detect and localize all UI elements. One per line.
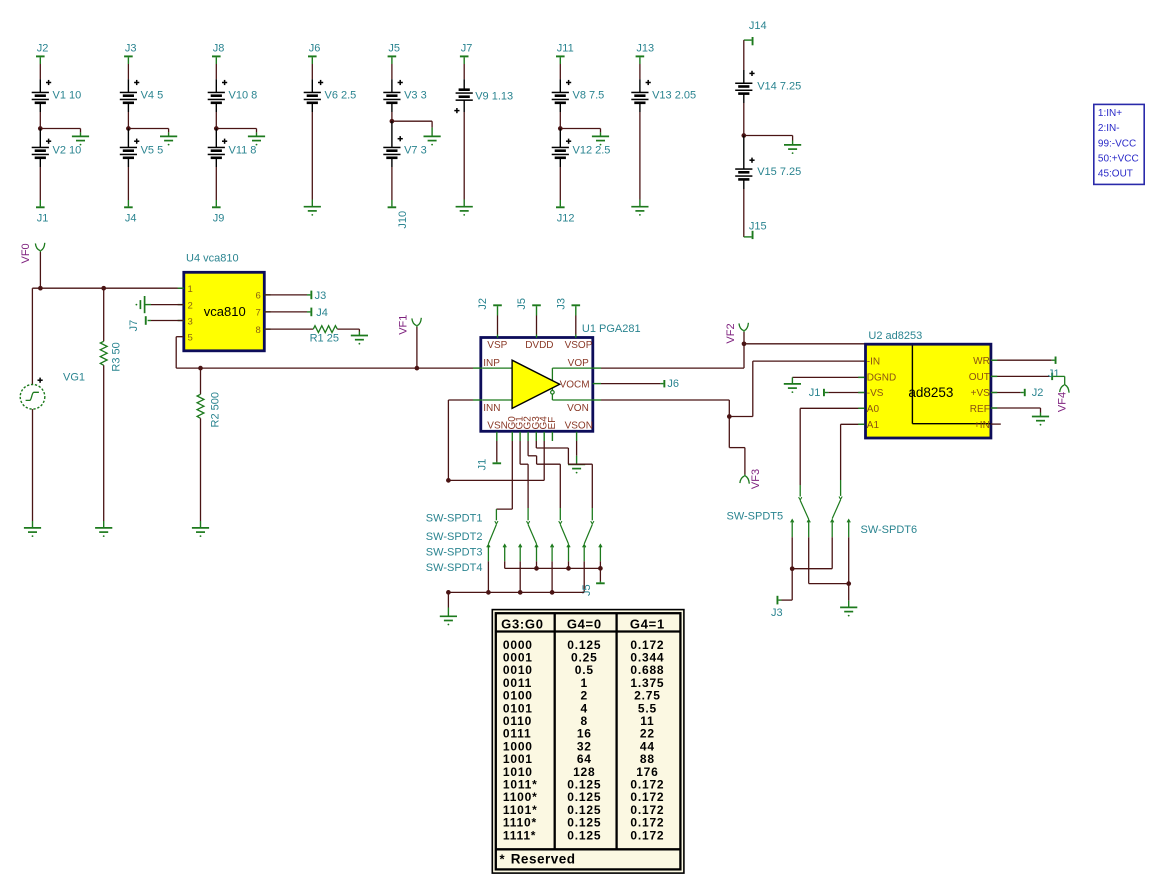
svg-text:V11 8: V11 8	[229, 145, 257, 157]
svg-text:VOCM: VOCM	[560, 380, 590, 391]
svg-text:2: 2	[188, 300, 193, 311]
svg-text:V9 1.13: V9 1.13	[475, 90, 513, 102]
wire	[463, 112, 465, 200]
junction	[846, 581, 851, 586]
junction	[742, 341, 747, 346]
terminal J2	[1021, 387, 1044, 399]
terminal J3	[124, 43, 136, 65]
wire	[991, 408, 1041, 413]
switch SW-SPDT1	[487, 509, 507, 561]
terminal J11	[556, 43, 574, 65]
ground	[72, 132, 89, 145]
wire	[39, 112, 41, 129]
junction	[415, 366, 420, 371]
wire	[536, 441, 592, 508]
junction	[126, 126, 131, 131]
terminal J9	[212, 200, 224, 224]
junction	[566, 566, 571, 571]
wire	[151, 320, 184, 322]
terminal J1	[477, 459, 501, 471]
ground	[784, 141, 801, 155]
ground	[631, 200, 648, 216]
wire	[215, 167, 217, 200]
wire	[559, 64, 561, 79]
probe VF4	[1056, 384, 1069, 413]
switch SW-SPDT2	[519, 508, 539, 561]
terminal J1	[36, 200, 48, 224]
svg-text:SW-SPDT5: SW-SPDT5	[727, 510, 784, 522]
wire	[311, 64, 313, 79]
junction	[558, 126, 563, 131]
wire	[128, 129, 168, 133]
junction	[446, 590, 451, 595]
wire	[991, 392, 1021, 394]
svg-text:J2: J2	[37, 43, 49, 55]
wire	[743, 40, 745, 70]
wire	[497, 316, 499, 338]
amplifier U1 PGA281	[481, 323, 641, 432]
wire	[40, 129, 80, 133]
junction	[101, 286, 106, 291]
wire	[127, 167, 129, 200]
switch SW-SPDT4	[583, 508, 602, 561]
wire	[639, 112, 641, 200]
terminal J6	[308, 43, 320, 65]
voltage source V8 7.5	[552, 79, 605, 112]
wire	[265, 328, 314, 330]
wire	[496, 441, 498, 462]
voltage source V4 5	[120, 79, 163, 112]
svg-text:J2: J2	[1032, 387, 1044, 399]
wire	[841, 424, 865, 480]
wire	[991, 375, 1050, 377]
wire	[178, 288, 271, 329]
wire	[391, 64, 393, 79]
svg-text:V12 2.5: V12 2.5	[573, 145, 611, 157]
svg-text:G4=0: G4=0	[567, 616, 602, 631]
svg-text:+IN: +IN	[974, 420, 990, 431]
svg-text:0.125: 0.125	[567, 828, 601, 842]
wire	[744, 343, 865, 345]
wire	[568, 561, 570, 568]
ground	[840, 601, 857, 617]
svg-text:V8 7.5: V8 7.5	[573, 90, 605, 102]
svg-text:J3: J3	[771, 607, 783, 619]
label SW-SPDT4	[426, 562, 483, 574]
svg-text:J1: J1	[37, 212, 49, 224]
junction	[38, 286, 43, 291]
ground	[160, 132, 177, 145]
svg-text:8: 8	[256, 325, 261, 336]
svg-text:1:IN+: 1:IN+	[1098, 108, 1122, 119]
svg-text:VSN: VSN	[487, 421, 508, 432]
wire	[599, 568, 601, 581]
wire	[216, 129, 256, 133]
wire	[543, 432, 545, 441]
svg-text:45:OUT: 45:OUT	[1098, 169, 1133, 180]
svg-text:J9: J9	[213, 212, 225, 224]
terminal J12	[556, 200, 575, 224]
svg-text:A1: A1	[867, 420, 880, 431]
wire	[511, 432, 513, 441]
svg-text:99:-VCC: 99:-VCC	[1098, 138, 1136, 149]
wire	[593, 383, 661, 385]
probe VF3	[740, 469, 762, 489]
junction	[550, 590, 555, 595]
svg-text:U4 vca810: U4 vca810	[186, 253, 239, 265]
wire	[32, 288, 183, 384]
terminal J6	[660, 378, 679, 390]
svg-text:R1 25: R1 25	[310, 333, 339, 345]
terminal J2	[477, 298, 502, 316]
svg-text:J4: J4	[125, 212, 137, 224]
wire	[743, 332, 745, 344]
svg-text:VF2: VF2	[725, 323, 737, 343]
junction	[38, 126, 43, 131]
wire	[39, 252, 41, 288]
wire	[848, 584, 850, 601]
terminal J1	[809, 387, 829, 399]
ground	[24, 521, 41, 537]
svg-text:V14 7.25: V14 7.25	[757, 80, 801, 92]
svg-text:VSOP: VSOP	[565, 340, 593, 351]
voltage source V13 2.05	[631, 79, 696, 112]
svg-text:-IN: -IN	[867, 356, 880, 367]
wire bus	[505, 567, 601, 569]
svg-text:V13 2.05: V13 2.05	[652, 90, 696, 102]
svg-text:SW-SPDT1: SW-SPDT1	[426, 513, 483, 525]
svg-text:J12: J12	[557, 212, 575, 224]
wire	[792, 376, 864, 378]
wire	[809, 537, 849, 583]
generator VG1	[20, 372, 85, 410]
junction	[518, 590, 523, 595]
wire	[729, 417, 745, 475]
wire	[782, 569, 793, 600]
wire	[103, 288, 105, 341]
voltage source V10 8	[208, 79, 258, 112]
wire	[599, 561, 601, 568]
label SW-SPDT5	[727, 510, 784, 522]
wire	[576, 441, 578, 456]
terminal J3	[771, 596, 783, 619]
svg-text:VF4: VF4	[1056, 392, 1068, 412]
svg-text:VF3: VF3	[750, 469, 762, 489]
wire	[551, 432, 553, 441]
terminal J2	[36, 43, 48, 65]
terminal J5	[516, 298, 541, 316]
wire	[151, 304, 184, 306]
svg-text:WR: WR	[973, 356, 990, 367]
svg-text:SW-SPDT4: SW-SPDT4	[426, 562, 483, 574]
svg-text:3: 3	[188, 316, 193, 327]
svg-text:V4 5: V4 5	[141, 90, 164, 102]
wire	[448, 399, 482, 401]
svg-text:VSP: VSP	[487, 340, 507, 351]
junction	[390, 119, 395, 124]
svg-text:1: 1	[188, 284, 193, 295]
wire	[103, 365, 105, 521]
svg-text:EF: EF	[547, 417, 558, 430]
ground	[95, 521, 112, 537]
svg-text:VG1: VG1	[63, 372, 85, 384]
svg-text:J3: J3	[555, 298, 567, 310]
svg-text:U2 ad8253: U2 ad8253	[868, 330, 922, 342]
svg-text:J4: J4	[316, 307, 328, 319]
svg-text:VOP: VOP	[568, 358, 589, 369]
wire	[593, 344, 744, 368]
wire	[337, 329, 359, 331]
terminal J4	[124, 200, 136, 224]
svg-text:J10: J10	[397, 211, 409, 229]
wire	[519, 432, 521, 441]
junction	[727, 414, 732, 419]
wire	[447, 400, 449, 480]
wire	[991, 359, 1052, 361]
wire	[520, 441, 528, 508]
svg-text:R2 500: R2 500	[210, 392, 222, 427]
wire	[536, 316, 538, 338]
svg-text:G4=1: G4=1	[630, 616, 665, 631]
wire	[487, 561, 489, 592]
junction	[446, 478, 451, 483]
svg-text:VF1: VF1	[398, 315, 410, 335]
svg-text:DVDD: DVDD	[525, 340, 553, 351]
wire	[743, 103, 745, 136]
svg-text:Reserved: Reserved	[511, 852, 576, 867]
voltage source V14 7.25	[735, 70, 801, 103]
ground	[248, 132, 265, 145]
ground	[440, 608, 457, 626]
svg-text:5: 5	[188, 332, 193, 343]
op-amp U4 vca810	[184, 253, 264, 351]
table gain lookup	[492, 610, 684, 874]
wire	[593, 400, 730, 417]
svg-text:V15 7.25: V15 7.25	[757, 166, 801, 178]
wire	[744, 136, 793, 141]
svg-text:J11: J11	[557, 43, 574, 55]
svg-text:-VS: -VS	[867, 388, 884, 399]
wire	[535, 432, 537, 441]
svg-text:VON: VON	[567, 403, 589, 414]
svg-text:VF0: VF0	[20, 243, 32, 263]
label SW-SPDT3	[426, 547, 483, 559]
wire	[391, 112, 393, 121]
wire	[991, 423, 1001, 425]
voltage source V9 1.13	[454, 79, 513, 113]
svg-text:7: 7	[256, 308, 261, 319]
svg-text:V7 3: V7 3	[404, 145, 427, 157]
wire	[639, 64, 641, 79]
wire	[848, 537, 850, 583]
svg-text:0.172: 0.172	[630, 828, 664, 842]
svg-text:J6: J6	[667, 378, 679, 390]
wire	[391, 167, 393, 200]
ground	[1032, 413, 1049, 426]
svg-text:J7: J7	[461, 43, 473, 55]
junction	[214, 126, 219, 131]
svg-text:SW-SPDT6: SW-SPDT6	[861, 524, 918, 536]
voltage source V12 2.5	[552, 129, 611, 168]
resistor R2 500	[197, 392, 222, 427]
label SW-SPDT2	[426, 531, 483, 543]
svg-text:SW-SPDT2: SW-SPDT2	[426, 531, 483, 543]
wire	[583, 561, 585, 592]
wire	[448, 479, 544, 481]
switch SW-SPDT5	[791, 485, 811, 537]
wire	[496, 441, 512, 509]
terminal J5	[581, 581, 605, 596]
voltage source V1 10	[32, 79, 82, 112]
terminal J7	[460, 43, 472, 65]
voltage source V15 7.25	[735, 136, 801, 190]
svg-text:+VS: +VS	[971, 388, 991, 399]
terminal J8	[212, 43, 224, 65]
wire	[392, 121, 432, 127]
svg-text:ad8253: ad8253	[908, 385, 953, 400]
switch SW-SPDT3	[551, 508, 571, 561]
wire	[447, 592, 449, 607]
ground	[784, 377, 801, 393]
voltage source V3 3	[383, 79, 426, 112]
terminal J1	[1048, 368, 1065, 384]
probe VF0	[20, 243, 45, 264]
wire	[473, 367, 482, 369]
wire	[536, 561, 538, 568]
ground	[192, 521, 209, 537]
voltage source V11 8	[208, 129, 257, 168]
voltage source V2 10	[32, 129, 82, 168]
wire	[39, 167, 41, 200]
junction	[790, 566, 795, 571]
terminal J14	[744, 20, 767, 45]
junction	[486, 590, 491, 595]
wire	[800, 408, 864, 485]
ground	[136, 296, 152, 313]
svg-text:VSON: VSON	[565, 421, 593, 432]
wire	[504, 561, 506, 568]
table rows	[503, 638, 665, 843]
probe VF1	[398, 315, 422, 335]
svg-text:V5 5: V5 5	[141, 145, 164, 157]
ground	[592, 132, 609, 145]
wire	[215, 112, 217, 129]
wire	[729, 361, 864, 416]
probe VF2	[725, 323, 748, 344]
ground	[424, 128, 441, 146]
wire	[559, 112, 561, 129]
wire	[416, 327, 418, 368]
svg-text:G3:G0: G3:G0	[501, 616, 544, 631]
terminal J10	[388, 200, 409, 229]
ground	[568, 456, 585, 474]
terminal J3	[307, 290, 326, 302]
svg-text:V10 8: V10 8	[229, 90, 258, 102]
svg-text:J6: J6	[309, 43, 321, 55]
svg-text:A0: A0	[867, 404, 880, 415]
wire	[791, 537, 793, 569]
svg-text:J1: J1	[1048, 368, 1060, 380]
voltage source V5 5	[120, 129, 163, 168]
resistor R3 50	[100, 341, 122, 371]
wire	[528, 441, 560, 508]
svg-text:U1 PGA281: U1 PGA281	[582, 323, 641, 335]
junction	[741, 133, 746, 138]
wire	[32, 409, 34, 521]
svg-text:J5: J5	[388, 43, 400, 55]
wire	[463, 64, 465, 79]
wire	[127, 112, 129, 129]
wire	[575, 316, 577, 338]
switch SW-SPDT6	[831, 480, 851, 537]
svg-text:INN: INN	[483, 403, 500, 414]
wire bus	[448, 591, 584, 593]
svg-text:V3 3: V3 3	[404, 90, 427, 102]
junction	[198, 366, 203, 371]
wire	[527, 432, 529, 441]
svg-text:vca810: vca810	[204, 304, 246, 319]
wire	[176, 337, 473, 368]
svg-text:J3: J3	[125, 43, 137, 55]
svg-text:1111*: 1111*	[503, 828, 536, 842]
svg-text:J7: J7	[128, 320, 140, 332]
voltage source V7 3	[383, 121, 426, 167]
terminal J3	[555, 298, 580, 316]
svg-text:50:+VCC: 50:+VCC	[1098, 154, 1139, 165]
wire	[200, 418, 202, 521]
ground	[351, 332, 368, 345]
wire	[519, 561, 521, 592]
svg-text:J5: J5	[581, 584, 593, 596]
wire	[200, 368, 202, 394]
voltage source V6 2.5	[304, 79, 357, 112]
label SW-SPDT6	[861, 524, 918, 536]
wire	[496, 432, 498, 441]
wire	[215, 64, 217, 79]
wire	[743, 189, 745, 237]
svg-text:J5: J5	[516, 298, 528, 310]
svg-text:J13: J13	[636, 43, 654, 55]
svg-text:J1: J1	[477, 459, 489, 471]
junction	[534, 566, 539, 571]
svg-text:INP: INP	[483, 358, 500, 369]
wire	[265, 311, 307, 313]
svg-text:SW-SPDT3: SW-SPDT3	[426, 547, 483, 559]
svg-text:DGND: DGND	[867, 373, 896, 384]
svg-text:J3: J3	[315, 290, 327, 302]
ground	[304, 200, 321, 216]
resistor R1 25	[310, 326, 339, 345]
label SW-SPDT1	[426, 513, 483, 525]
terminal J15	[744, 221, 767, 239]
svg-text:2:IN-: 2:IN-	[1098, 123, 1120, 134]
terminal J13	[636, 43, 655, 65]
svg-text:REF: REF	[970, 404, 990, 415]
svg-text:R3 50: R3 50	[111, 342, 123, 371]
svg-text:V2 10: V2 10	[53, 145, 82, 157]
legend box	[1094, 104, 1144, 184]
wire	[576, 432, 578, 441]
svg-text:V1 10: V1 10	[53, 90, 82, 102]
wire	[127, 64, 129, 79]
svg-text:J2: J2	[477, 298, 489, 310]
terminal J5	[388, 43, 400, 65]
wire	[543, 441, 545, 480]
junction	[598, 566, 603, 571]
wire	[559, 167, 561, 200]
terminal J4	[307, 307, 328, 319]
svg-text:J15: J15	[749, 221, 767, 233]
